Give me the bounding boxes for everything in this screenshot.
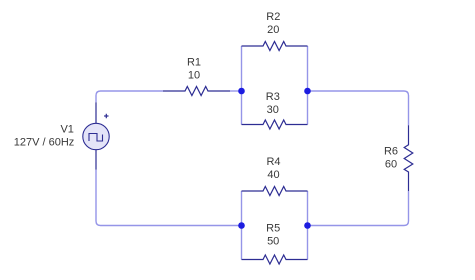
wire xyxy=(96,170,242,226)
svg-text:R4: R4 xyxy=(266,156,280,168)
svg-text:V1: V1 xyxy=(60,124,73,136)
resistor R2 xyxy=(242,42,308,51)
svg-text:20: 20 xyxy=(267,24,279,36)
svg-text:10: 10 xyxy=(188,70,200,82)
svg-text:R6: R6 xyxy=(384,146,398,158)
wire xyxy=(308,191,409,225)
svg-text:127V / 60Hz: 127V / 60Hz xyxy=(14,137,75,149)
wire xyxy=(96,91,163,102)
svg-text:R3: R3 xyxy=(266,91,280,103)
svg-text:50: 50 xyxy=(267,236,279,248)
wire xyxy=(307,191,309,260)
resistor R4 xyxy=(242,187,308,196)
svg-text:R2: R2 xyxy=(266,11,280,23)
resistor R3 xyxy=(242,120,308,129)
wire xyxy=(241,191,243,260)
resistor R5 xyxy=(242,255,308,264)
voltage source V1 xyxy=(83,102,109,169)
svg-text:R5: R5 xyxy=(266,223,280,235)
svg-text:40: 40 xyxy=(267,169,279,181)
node junction dot xyxy=(304,222,311,229)
node junction dot xyxy=(238,222,245,229)
node junction dot xyxy=(238,88,245,95)
svg-text:60: 60 xyxy=(385,159,397,171)
wire xyxy=(307,46,309,125)
wire xyxy=(230,90,242,92)
svg-text:30: 30 xyxy=(267,104,279,116)
plus polarity mark xyxy=(104,114,108,118)
wire xyxy=(241,46,243,125)
wire xyxy=(308,91,409,125)
svg-text:R1: R1 xyxy=(187,57,201,69)
resistor R6 xyxy=(404,125,413,191)
resistor R1 xyxy=(163,87,230,96)
node junction dot xyxy=(304,88,311,95)
